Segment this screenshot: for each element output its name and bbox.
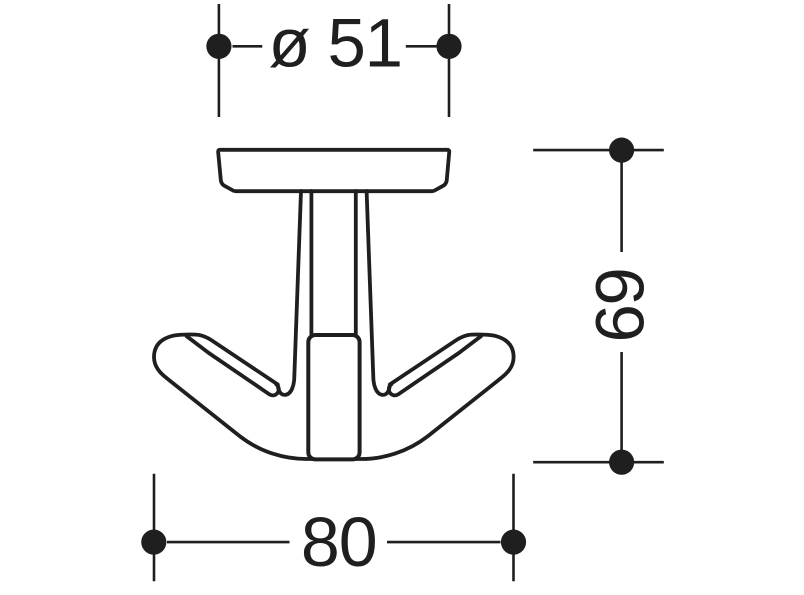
- svg-text:ø 51: ø 51: [269, 5, 402, 82]
- svg-text:69: 69: [581, 269, 658, 343]
- svg-text:80: 80: [301, 503, 377, 581]
